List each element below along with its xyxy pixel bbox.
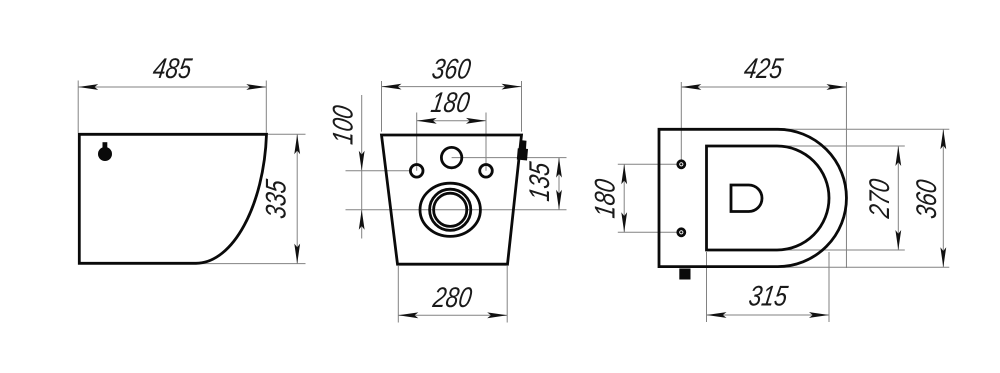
dim 360 right-view line — [942, 129, 944, 267]
centerline drain — [346, 209, 567, 211]
centerline inlet — [452, 157, 567, 159]
dim 180 extension lines — [417, 113, 486, 171]
svg-text:100: 100 — [326, 103, 359, 147]
dim 360 arrows — [382, 84, 402, 90]
centerline fixing holes — [346, 170, 411, 172]
dim 425 arrows — [681, 84, 701, 90]
dim 360 right-view extension lines — [778, 129, 949, 267]
dim 315 line — [707, 314, 830, 316]
dim 485 arrows — [78, 84, 98, 90]
dim 180 line — [417, 120, 486, 122]
inlet circle — [441, 147, 461, 167]
svg-text:315: 315 — [747, 279, 791, 312]
dim 360 line — [382, 86, 522, 88]
dim 335 extension lines — [197, 134, 306, 263]
drain tab — [679, 269, 690, 280]
seat outline — [707, 146, 830, 250]
drain outer ellipse — [420, 183, 480, 236]
dim 485 extension lines — [78, 81, 266, 133]
flush D shape — [731, 185, 762, 212]
dim 270 arrows — [895, 146, 901, 166]
dim 135 line — [558, 158, 560, 210]
nozzle dot — [98, 142, 112, 161]
side view outline — [79, 134, 266, 263]
dim 425 line — [681, 86, 846, 88]
dim 180 right-view line — [623, 164, 625, 232]
dim 360 extension lines — [382, 81, 522, 132]
top view outer outline — [659, 129, 846, 266]
dim 315 extension lines — [707, 252, 830, 322]
svg-text:485: 485 — [151, 52, 195, 85]
svg-text:180: 180 — [429, 86, 473, 119]
svg-text:360: 360 — [430, 52, 474, 85]
dim 335 line — [296, 134, 298, 263]
svg-text:135: 135 — [523, 159, 556, 203]
svg-text:270: 270 — [863, 176, 896, 221]
dim 100 arrows — [359, 151, 365, 171]
rear view trapezoid outline — [382, 135, 522, 264]
top hole — [678, 161, 685, 168]
dim 135 arrows — [556, 158, 562, 178]
svg-text:425: 425 — [742, 52, 786, 85]
dim 360 right-view arrows — [940, 129, 946, 149]
svg-text:360: 360 — [910, 177, 943, 221]
dim 280 extension lines — [398, 266, 507, 323]
dim 270 line — [897, 146, 899, 250]
rear fixing bolt — [517, 140, 528, 160]
drain ring inner — [434, 193, 467, 226]
dim 280 line — [398, 314, 507, 316]
dim 180 right-view arrows — [621, 164, 627, 184]
drain ring outer — [430, 189, 471, 230]
dim 180 arrows — [417, 118, 437, 124]
fixing hole left — [410, 165, 423, 178]
dim 485 line — [78, 86, 266, 88]
dim 100 line — [361, 95, 363, 239]
dim 280 arrows — [398, 312, 418, 318]
dim 180 right-view extension lines — [618, 164, 678, 232]
dim 335 arrows — [294, 134, 300, 154]
svg-text:335: 335 — [259, 177, 292, 221]
svg-text:280: 280 — [430, 280, 475, 313]
dim 425 extension lines — [681, 82, 846, 268]
svg-text:180: 180 — [588, 176, 621, 220]
dim 270 extension lines — [778, 146, 905, 250]
fixing hole right — [480, 165, 493, 178]
bottom hole — [678, 229, 685, 236]
dim 315 arrows — [707, 312, 727, 318]
